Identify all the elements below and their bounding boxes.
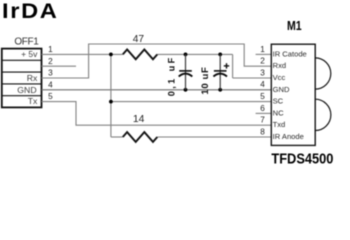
connector OFF1 label: [14, 36, 39, 47]
svg-text:1: 1: [260, 45, 265, 54]
svg-text:3: 3: [48, 69, 53, 78]
M1 pin label IR Anode: [273, 132, 304, 141]
svg-text:IrDA: IrDA: [2, 0, 59, 23]
svg-text:M1: M1: [287, 19, 302, 33]
wire M1 pin6 stub: [256, 112, 272, 114]
svg-text:SC: SC: [273, 97, 284, 106]
junction dot C2 bottom: [218, 88, 222, 92]
capacitor C2 10uF: [213, 54, 227, 89]
wire +5v drop to resistor R14 and M1.8: [111, 54, 271, 137]
svg-text:4: 4: [48, 80, 53, 89]
capacitor C2 plus sign: [224, 63, 229, 68]
M1 pin number 7: [260, 116, 265, 125]
svg-text:10 uF: 10 uF: [200, 67, 211, 95]
svg-text:2: 2: [260, 57, 265, 66]
title IrDA: [2, 0, 59, 23]
M1 pin number 3: [260, 68, 265, 77]
resistor 47 value label: [133, 34, 145, 45]
M1 pin label Rxd: [273, 61, 287, 70]
svg-text:1: 1: [48, 45, 53, 54]
junction dot C2 top: [218, 53, 222, 57]
wire OFF1 pin2 stub: [42, 65, 77, 67]
OFF1 pin number 3: [48, 69, 53, 78]
svg-text:IR Anode: IR Anode: [273, 132, 304, 141]
wire SC net: junction to M1.5: [111, 101, 271, 103]
svg-text:2: 2: [48, 57, 53, 66]
M1 pin label NC: [273, 108, 284, 117]
OFF1 cell label GND: [17, 85, 36, 95]
M1 pin number 5: [260, 92, 265, 101]
M1 pin label SC: [273, 97, 284, 106]
connector OFF1 body: [2, 49, 42, 108]
M1 pin number 6: [260, 104, 265, 113]
capacitor C1 value label 0,1 uF: [167, 55, 177, 96]
OFF1 pin number 5: [48, 92, 53, 101]
M1 pin label Vcc: [273, 73, 286, 82]
svg-text:NC: NC: [273, 108, 284, 117]
IC M1 upper lens bump: [315, 58, 331, 89]
OFF1 cell label Rx: [27, 73, 38, 83]
resistor 14 value label: [133, 114, 145, 125]
svg-text:OFF1: OFF1: [14, 36, 39, 47]
capacitor C2 value label 10 uF: [200, 67, 211, 95]
OFF1 pin number 2: [48, 57, 53, 66]
OFF1 cell label +5v: [21, 49, 38, 59]
resistor 47: [123, 50, 158, 60]
svg-text:8: 8: [260, 127, 265, 136]
IC M1 lower lens bump: [315, 99, 331, 130]
svg-text:47: 47: [133, 34, 145, 45]
svg-text:Txd: Txd: [273, 120, 286, 129]
capacitor C1 0.1uF: [179, 54, 193, 89]
wire Tx net: OFF1.5 down and over to M1.7: [42, 102, 272, 126]
svg-text:IR Catode: IR Catode: [273, 49, 307, 58]
M1 pin number 1: [260, 45, 265, 54]
junction dot SC: [109, 100, 113, 104]
M1 pin number 2: [260, 57, 265, 66]
svg-text:Rx: Rx: [27, 73, 38, 83]
svg-text:GND: GND: [17, 85, 36, 95]
svg-text:Tx: Tx: [28, 96, 38, 106]
junction dot C1 bottom: [184, 88, 188, 92]
svg-text:4: 4: [260, 80, 265, 89]
junction dot +5v / R47: [109, 53, 113, 57]
svg-text:Rxd: Rxd: [273, 61, 287, 70]
svg-text:3: 3: [260, 68, 265, 77]
resistor 14: [123, 132, 158, 142]
wire +5v net: OFF1.1 to junction and resistor R47: [42, 54, 272, 78]
OFF1 pin number 4: [48, 80, 53, 89]
svg-text:GND: GND: [273, 85, 290, 94]
svg-text:+ 5v: + 5v: [21, 49, 38, 59]
M1 pin number 8: [260, 127, 265, 136]
junction dot C1 top: [184, 53, 188, 57]
OFF1 pin number 1: [48, 45, 53, 54]
svg-text:Vcc: Vcc: [273, 73, 286, 82]
OFF1 cell label Tx: [28, 96, 38, 106]
svg-text:0,1 uF: 0,1 uF: [167, 55, 177, 96]
svg-text:7: 7: [260, 116, 265, 125]
svg-text:TFDS4500: TFDS4500: [271, 150, 333, 166]
svg-text:5: 5: [48, 92, 53, 101]
M1 pin label GND: [273, 85, 290, 94]
svg-text:5: 5: [260, 92, 265, 101]
IC M1 label: [287, 19, 302, 33]
svg-text:6: 6: [260, 104, 265, 113]
M1 pin number 4: [260, 80, 265, 89]
M1 part value TFDS4500: [271, 150, 333, 167]
wire M1 pin1 stub: [256, 53, 272, 55]
svg-text:14: 14: [133, 114, 145, 125]
wire GND net: OFF1.4 to M1.4: [42, 89, 272, 91]
M1 pin label Txd: [273, 120, 286, 129]
wire Rx net: OFF1.3 up and over to M1.2: [42, 44, 272, 78]
IC M1 body TFDS4500: [271, 44, 315, 145]
M1 pin label IR Catode: [273, 49, 307, 58]
